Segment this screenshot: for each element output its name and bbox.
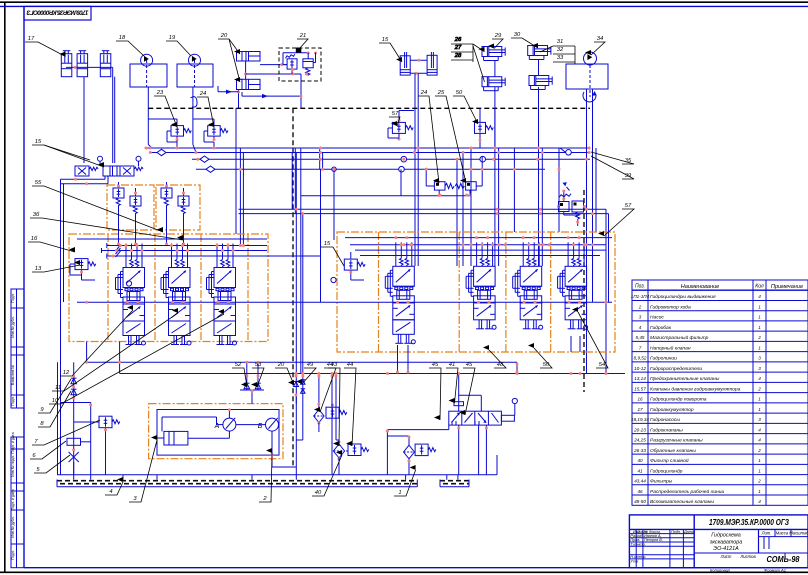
relief pair cluster 55b [161,188,172,198]
svg-text:Гидроаккумулятор: Гидроаккумулятор [650,407,694,413]
horizontal cylinder 30 lower [529,76,549,86]
svg-text:Гидроцилиндр поворота: Гидроцилиндр поворота [650,397,707,403]
wire: y402 link [61,402,91,404]
wire: motor dashed drain [589,65,591,97]
pump 19 [189,54,201,66]
svg-text:Напорный клапан: Напорный клапан [650,344,691,351]
svg-text:Лит.: Лит. [761,531,772,536]
orange box hand pump unit [149,404,283,459]
svg-text:18,19,34: 18,19,34 [631,417,649,422]
svg-text:1: 1 [758,325,761,330]
wire: x90 vertical [90,403,92,475]
bank valve V1 left [125,244,127,260]
svg-text:1: 1 [758,315,761,320]
main bus line L2 [150,152,590,154]
paired pilot cylinders 15 top [400,56,410,75]
svg-text:13,14: 13,14 [634,376,646,381]
svg-text:Подп. и дата: Подп. и дата [11,489,15,510]
gauge B [266,418,279,431]
svg-text:3: 3 [639,315,642,320]
bus y362 [87,361,517,363]
check circle under bank13 [126,281,131,286]
svg-text:Насос: Насос [650,315,664,321]
svg-text:1709.МЭР.35.КР.0000 ОГЗ: 1709.МЭР.35.КР.0000 ОГЗ [709,517,789,527]
relief valve 13b right bank [344,259,357,270]
svg-text:Фильтры: Фильтры [650,479,673,485]
orange box left valve bank [69,234,268,342]
pump 18 [141,54,153,66]
bank valve V2 left [171,244,173,260]
svg-text:Гидролинии: Гидролинии [650,356,677,362]
svg-text:46: 46 [637,489,643,494]
main bus line L6 [239,208,607,210]
wire: left long vertical a [60,179,62,475]
relief valve 50 left [475,122,486,133]
wire: drop to y373 [119,342,121,374]
riser group x236-243 [235,108,237,234]
junction dots [145,147,148,150]
orange box right valve bank [337,232,615,352]
wire: cyl20 lower drains [238,90,240,109]
boundary dashed vertical right [583,190,585,392]
svg-text:4: 4 [758,438,761,443]
bus y373 [120,373,625,375]
horizontal cylinder 30 upper [528,46,548,56]
svg-text:2: 2 [757,448,761,453]
svg-text:Петров В.: Петров В. [644,538,663,542]
svg-text:3: 3 [758,417,761,422]
bank valve V6 [522,242,524,258]
svg-text:16: 16 [637,397,643,402]
svg-text:Клапаны давления гидроаккумуля: Клапаны давления гидроаккумулятора [650,386,741,392]
svg-text:2: 2 [638,304,642,309]
svg-text:Подп.: Подп. [671,530,681,534]
svg-text:4: 4 [758,294,761,299]
relief valve 57 left [392,122,405,133]
wire: cyl20 inter links [245,61,247,79]
svg-text:Подп.: Подп. [11,396,15,406]
svg-text:1: 1 [758,458,761,463]
svg-text:Вспомогательные клапаны: Вспомогательные клапаны [650,499,714,505]
wire: pump suction dashed centre 18 [146,60,148,87]
relief valve 23 [171,126,184,137]
wire: valve15 drains [104,176,106,179]
hydromotor 34 [566,64,608,89]
relief valve 44b [326,407,339,418]
svg-text:Формат А1: Формат А1 [764,568,786,573]
svg-text:Взам.инв.№: Взам.инв.№ [11,365,15,385]
dots bank tops left [125,244,128,247]
relief valve 40b [415,444,428,456]
horizontal cylinder 29 lower [482,77,502,87]
wire: accumulator manifold [66,66,113,68]
svg-text:10-12: 10-12 [634,366,646,371]
svg-text:ЭО-4121А: ЭО-4121А [713,546,739,552]
svg-text:1: 1 [758,468,761,473]
orange box relief group left b [156,185,200,230]
riser group x586-596 [595,148,597,232]
svg-text:Т.контр.: Т.контр. [630,542,645,546]
svg-text:43,44: 43,44 [634,479,646,484]
coupler circle right bank [331,277,336,282]
svg-text:Обратные клапаны: Обратные клапаны [650,448,696,454]
valve 46 actuator tab [501,415,514,421]
svg-text:Гидроцилиндр: Гидроцилиндр [650,468,683,474]
svg-text:4: 4 [758,376,761,381]
svg-text:Фильтр сливной: Фильтр сливной [650,457,689,464]
top-left document stamp box [24,6,91,20]
relief valve pair 24/25 horizontal [434,182,445,190]
wire: right bank feet drops [570,336,572,352]
svg-text:40: 40 [637,458,643,463]
svg-text:экскаватора: экскаватора [710,540,743,546]
left margin stamp upper [11,289,24,408]
relief valve 21b [303,59,313,68]
svg-text:Разгрузочные клапаны: Разгрузочные клапаны [650,438,703,444]
relief valve 24 [208,126,221,137]
svg-text:26-33: 26-33 [633,448,646,453]
coupler circles mid bus [401,156,407,162]
wire: 23/24 piping [176,119,178,126]
svg-text:24,25: 24,25 [633,438,646,443]
svg-text:1: 1 [758,304,761,309]
svg-text:Инв.№ дубл.: Инв.№ дубл. [11,316,15,337]
svg-text:Копировал: Копировал [710,568,731,573]
riser pair into right bank from L6L7 [605,209,607,373]
svg-text:Магистральный фильтр: Магистральный фильтр [650,334,709,341]
valve 20 check column [295,396,297,475]
riser group x538-559 [538,108,540,148]
horizontal cylinder 20 upper [237,52,261,62]
svg-text:Поз.: Поз. [635,284,645,290]
accumulator 17 a [61,54,72,77]
svg-text:1: 1 [758,489,761,494]
wire: accumulator drop left [83,77,85,163]
wire: left long vertical c [57,362,59,474]
check valves 9/8 stack [73,362,75,474]
svg-text:41: 41 [637,468,643,473]
svg-text:Инв.№ дубл.: Инв.№ дубл. [11,516,15,537]
suction curl 19 [191,97,198,107]
relief pair cluster 55a [113,188,124,198]
svg-text:Лист: Лист [720,554,732,559]
title block [629,515,808,568]
svg-text:2: 2 [757,335,761,340]
filter 43 diamond [333,444,344,458]
svg-text:17: 17 [637,407,643,412]
valve 5 shutoff [69,452,79,462]
wire: cyl29/30 risers [494,61,496,77]
horizontal cylinder 29 upper [482,47,502,57]
svg-text:Подп. и дата: Подп. и дата [11,432,15,453]
svg-text:Гидроцилиндры выдвижения: Гидроцилиндры выдвижения [650,294,716,300]
accumulator 17 b [77,54,88,77]
solenoid valve 15 [75,166,89,176]
svg-text:Подп.: Подп. [11,550,15,560]
filter 44a diamond [314,410,324,423]
bank valve V4 [395,242,397,258]
bank tank line across [77,301,612,303]
svg-text:Гидроклапаны: Гидроклапаны [650,427,683,433]
svg-text:4: 4 [758,499,761,504]
svg-text:Распределитель рабочей линии: Распределитель рабочей линии [650,488,724,495]
relief cluster 35/39 right [559,202,570,212]
valves 52/53 small pair [246,362,248,390]
bank bus lines right [345,237,612,239]
wire: bank left drop to y362 [86,342,88,363]
bank bus lines left [77,238,267,240]
hydro tank (under pump 19) [177,64,213,87]
main bus line L1 [146,147,590,149]
svg-text:1: 1 [758,345,761,350]
wire: accumulator drop right [112,67,114,163]
svg-text:Гидромотор хода: Гидромотор хода [650,304,691,310]
bank valve V7 [567,242,569,258]
filter 40 diamond [404,445,415,459]
riser group x457-471 [456,159,458,266]
svg-text:2: 2 [757,479,761,484]
riser group x290-302 [291,153,293,209]
orange box relief group left a [107,185,154,230]
rotation symbol under 34 [583,92,596,102]
wire: motor verticals [586,89,588,374]
svg-text:1: 1 [758,397,761,402]
svg-text:1П1-1П4: 1П1-1П4 [631,294,650,299]
svg-text:Инв.№ подл.: Инв.№ подл. [11,455,15,476]
svg-text:48-50: 48-50 [634,499,646,504]
relief valve 7 [99,416,112,428]
riser x334 (L4 drop) [333,170,335,240]
svg-text:15,57: 15,57 [634,386,646,391]
svg-text:Листов: Листов [739,554,756,559]
left margin stamp lower [11,437,24,568]
wire: tank19 drain to bus [192,87,194,145]
relief valve 21a [287,59,297,69]
main bus line L7 [239,213,609,215]
main bus line L3 [192,158,590,160]
wire: risers 517 down [516,362,518,373]
svg-text:Кол: Кол [755,284,764,290]
wire: pilot to 46 [458,374,460,412]
svg-text:Предохранительные клапаны: Предохранительные клапаны [650,376,720,382]
svg-text:8,9,52: 8,9,52 [634,356,647,361]
riser group x318-325 [319,148,321,169]
svg-text:Наименование: Наименование [681,284,720,290]
wire: 46 drains [458,425,460,475]
main bus line L4 [196,168,545,170]
svg-text:Дата: Дата [683,530,694,534]
accumulator 17 c [100,54,111,77]
dots bank tops right [394,236,397,239]
horizontal cylinder 20 lower [237,79,261,89]
svg-text:5,45: 5,45 [636,335,645,340]
component 6 small cylinder [67,438,81,445]
parts list table [632,280,808,505]
wire: drops into band [73,475,75,480]
svg-text:1: 1 [758,407,761,412]
hand pump unit inner box [157,410,279,456]
boundary dashed horizontal [148,107,590,109]
gauge A [223,418,236,431]
riser group x494-514 [494,108,496,148]
svg-text:Гидросхема: Гидросхема [711,533,741,539]
svg-text:СОМЬ-98: СОМЬ-98 [767,555,801,564]
wire: hand pump links [188,437,230,439]
svg-text:Масштаб: Масштаб [789,531,808,536]
svg-text:Масса: Масса [776,531,789,536]
svg-text:Утв.: Утв. [630,559,639,563]
svg-text:Гидрораспределители: Гидрораспределители [650,366,702,372]
hydro tank 4 (under pump 18) [130,64,167,87]
svg-text:4: 4 [758,427,761,432]
hand pump piston 3 [164,431,188,445]
svg-text:3: 3 [758,366,761,371]
svg-text:Примечание: Примечание [771,284,803,290]
wire: tank18 drain to bus [147,87,149,145]
wire: 21 wrap links [283,52,308,54]
big directional valve 46 [449,411,502,425]
svg-text:2: 2 [757,386,761,391]
wire: pump suction dashed centre 19 [194,60,196,87]
bank valve V3 left [216,244,218,260]
valve block 21 dashed box [279,48,321,81]
svg-text:Гидробак: Гидробак [650,325,672,331]
valve 49 double check column [302,214,304,396]
svg-text:Подп.: Подп. [11,293,15,303]
relief valve 13 left bank [75,259,88,270]
svg-text:7: 7 [639,345,642,350]
main bus line L5 [301,195,470,197]
wire: verticals x332/336 to tank [331,374,333,475]
tank return hatched band [57,480,417,482]
check valve diamonds on bus start [157,149,166,155]
boundary dashed vertical mid [292,108,294,467]
svg-text:4: 4 [639,325,642,330]
svg-text:20-23: 20-23 [633,427,646,432]
svg-text:Гидронасосы: Гидронасосы [650,417,680,423]
riser group x404-421 [414,73,416,266]
bank valve V5 [476,242,478,258]
relief valve 44 [348,444,361,456]
svg-text:3: 3 [758,356,761,361]
wire: left long vertical b [63,184,65,302]
tank return collector line [57,474,497,476]
